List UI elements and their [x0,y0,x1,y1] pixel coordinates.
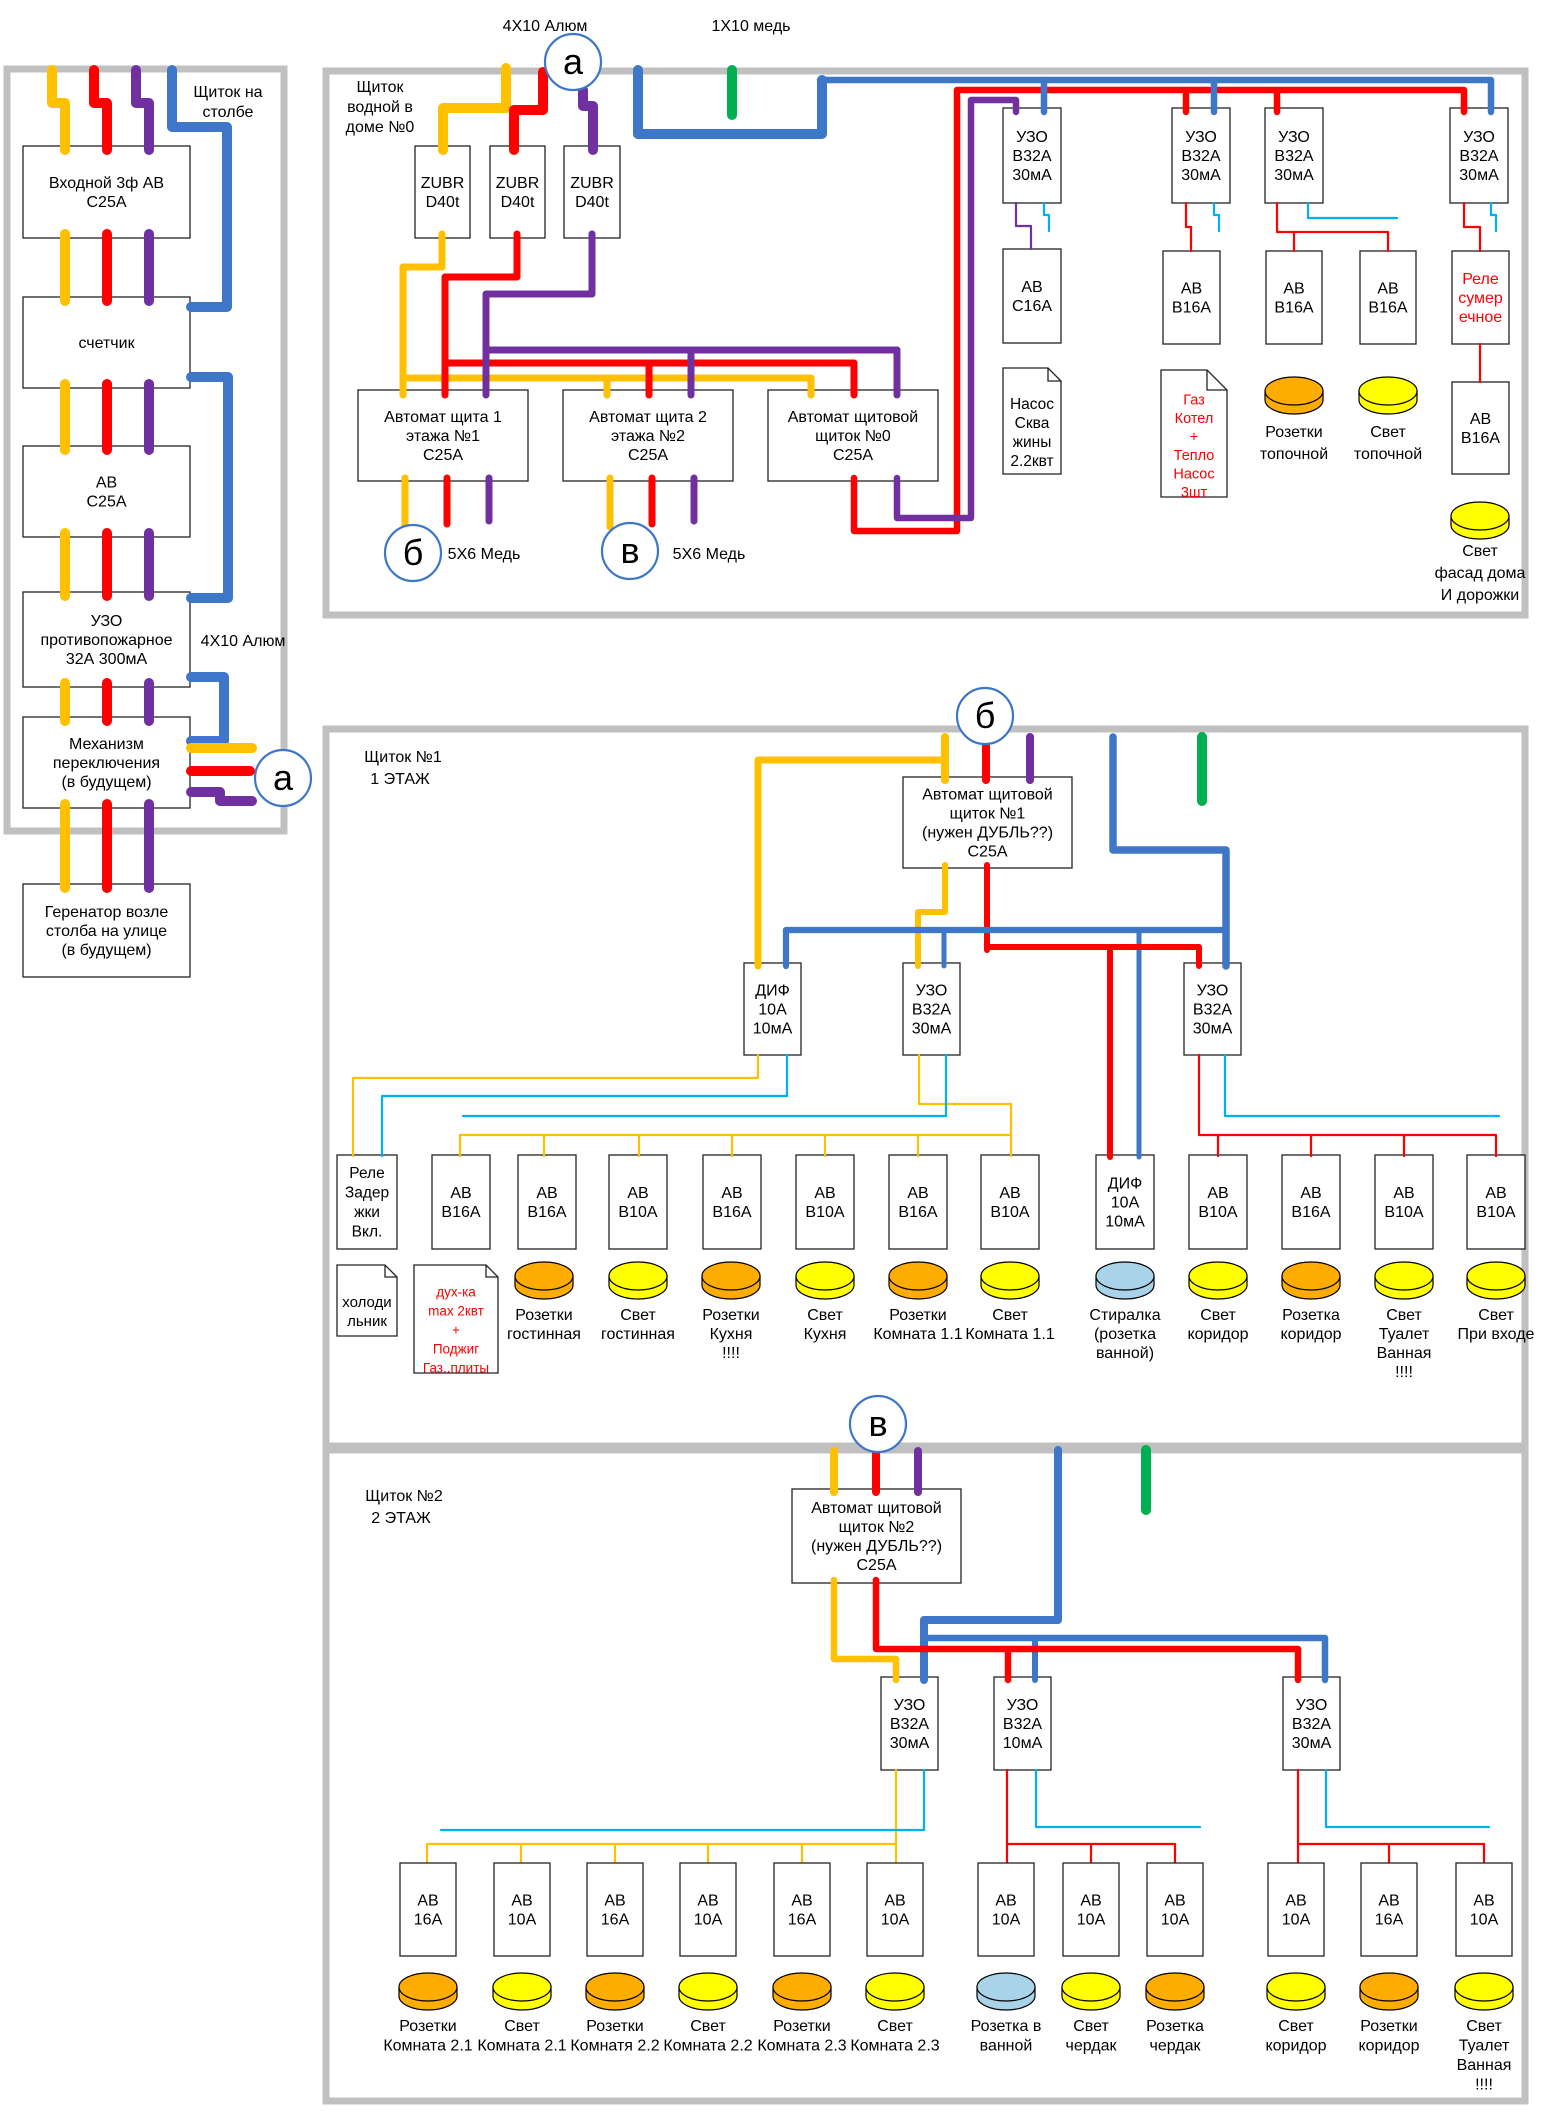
svg-text:АВ: АВ [1485,1185,1506,1202]
svg-text:столбе: столбе [203,104,254,121]
svg-text:АВ: АВ [907,1185,928,1202]
svg-text:+: + [1190,429,1198,445]
wire yellow bus p2 [427,1843,896,1845]
wire yellow ZUBR1 out [403,234,442,395]
breaker: АВ С16А [1003,249,1061,343]
wire L3 purple to generator [144,804,154,888]
wire red feed p1 [982,746,990,780]
wire blue N drop RCD1 [1041,80,1048,112]
svg-text:Ванная: Ванная [1457,2057,1512,2074]
svg-text:Свет: Свет [1200,1307,1236,1324]
wire purple riser A3 to RCD1 [897,100,1016,518]
svg-text:Тепло: Тепло [1174,448,1215,464]
wire L3 purple seg4 [144,683,154,721]
svg-text:max 2квт: max 2квт [428,1304,484,1319]
svg-text:Котел: Котел [1175,411,1214,427]
svg-text:(в будущем): (в будущем) [61,774,151,791]
wire red bus drop1 p1 [1217,1135,1219,1156]
wire blue N trunk thin [820,80,1491,112]
wire cyan N bus right p1 [1225,1055,1499,1116]
wire L1 yellow seg1 [60,234,70,301]
svg-text:Розетки: Розетки [515,1307,572,1324]
breaker: АВ В16А facade [1452,382,1509,474]
svg-text:водной в: водной в [347,99,413,116]
breaker: АВ 10А p2-9 [1147,1863,1203,1956]
svg-text:ZUBR: ZUBR [570,175,614,192]
wire red drop RCD2 [1183,90,1190,112]
svg-text:доме №0: доме №0 [346,119,415,136]
svg-text:Щиток: Щиток [357,79,405,96]
svg-text:УЗО: УЗО [1197,983,1229,1000]
wire purple drop A2 [688,350,695,395]
generator: Геренатор возле столба на улице (в будущем) [23,884,190,977]
wire blue N trunk p1 [1113,737,1226,966]
svg-text:АВ: АВ [96,475,117,492]
wire L3 purple seg1 [144,234,154,301]
wire N blue input [172,70,227,307]
svg-text:ДИФ: ДИФ [1108,1176,1143,1193]
svg-text:10А: 10А [1161,1912,1190,1929]
svg-text:Свет: Свет [1466,2018,1502,2035]
svg-text:ечное: ечное [1459,309,1502,326]
wire blue N drop RCD2 p2 [1032,1638,1038,1680]
svg-text:(нужен ДУБЛЬ??): (нужен ДУБЛЬ??) [922,825,1053,842]
wire red bus right p2 [1298,1843,1484,1845]
svg-text:Комната 2.2: Комната 2.2 [663,2038,752,2055]
svg-text:щиток №2: щиток №2 [839,1519,915,1536]
svg-text:а: а [273,757,294,798]
wire red bus [445,360,854,367]
svg-text:В32А: В32А [1274,148,1313,165]
svg-text:в: в [620,530,639,571]
svg-text:АВ: АВ [1300,1185,1321,1202]
svg-text:Розетки: Розетки [1265,424,1322,441]
wire purple feed ZUBR3 [583,90,593,150]
svg-text:коридор: коридор [1280,1326,1341,1343]
svg-text:Свет: Свет [620,1307,656,1324]
svg-text:Щиток №1: Щиток №1 [364,749,442,766]
RCD: УЗО В32А 30мА no0-2 [1172,108,1230,203]
svg-text:Ванная: Ванная [1377,1345,1432,1362]
svg-text:переключения: переключения [53,755,160,772]
wire L2 red seg2 [102,384,112,450]
svg-text:АВ: АВ [450,1185,471,1202]
breaker: АВ 16А p2-1 [400,1863,456,1956]
breaker: АВ 10А p2-2 [494,1863,550,1956]
svg-text:АВ: АВ [884,1893,905,1910]
svg-text:АВ: АВ [604,1893,625,1910]
svg-text:10А: 10А [1470,1912,1499,1929]
wire red A1 down [444,478,451,524]
svg-text:Стиралка: Стиралка [1089,1307,1160,1324]
RCD: ДИФ 10А 10мА washer [1096,1155,1154,1249]
svg-text:Туалет: Туалет [1459,2038,1510,2055]
svg-text:Комната 2.3: Комната 2.3 [850,2038,939,2055]
svg-text:ванной): ванной) [1096,1345,1154,1362]
wire red drop A3 [851,363,858,395]
svg-text:10А: 10А [1111,1195,1140,1212]
wire L1 yellow to generator [60,804,70,888]
svg-text:10А: 10А [508,1912,537,1929]
svg-text:В16А: В16А [441,1204,480,1221]
svg-text:АВ: АВ [697,1893,718,1910]
breaker: АВ В10А p1-5 [796,1155,854,1249]
svg-text:В32А: В32А [890,1716,929,1733]
wire red RCD3 tree [1277,203,1388,251]
breaker: АВ В16А p1-2 [518,1155,576,1249]
wire yellow drop5 p2 [801,1844,803,1864]
wire red drop r2 p2 [1483,1844,1485,1864]
breaker: АВ В10А p1-3 [609,1155,667,1249]
svg-text:Розетка: Розетка [1146,2018,1204,2035]
svg-text:ZUBR: ZUBR [421,175,465,192]
svg-text:АВ: АВ [1473,1893,1494,1910]
svg-text:УЗО: УЗО [1016,129,1048,146]
wire purple A1 down [486,478,493,521]
wire L1 yellow seg4 [60,683,70,721]
svg-text:(нужен ДУБЛЬ??): (нужен ДУБЛЬ??) [811,1538,942,1555]
svg-text:В10А: В10А [618,1204,657,1221]
node a left [255,750,311,806]
svg-text:При входе: При входе [1458,1326,1535,1343]
svg-text:В10А: В10А [1476,1204,1515,1221]
svg-text:Механизм: Механизм [69,736,144,753]
svg-text:Комната 1.1: Комната 1.1 [873,1326,962,1343]
svg-text:Реле: Реле [349,1165,384,1182]
svg-text:жины: жины [1013,434,1052,451]
svg-text:В16А: В16А [1274,300,1313,317]
breaker: АВ В10А p1-10 [1375,1155,1433,1249]
svg-text:30мА: 30мА [890,1735,930,1752]
svg-text:АВ: АВ [791,1893,812,1910]
wire cyan N RCD1 p2 [441,1770,924,1830]
wire yellow drop1 p2 [426,1844,428,1864]
svg-text:коридор: коридор [1358,2038,1419,2055]
svg-text:АВ: АВ [999,1185,1020,1202]
svg-text:(в будущем): (в будущем) [61,942,151,959]
load disc p1-7: Стиралка (розетка [1096,1276,1154,1299]
wire L2 red seg4 [102,683,112,721]
wire red drop RCD2 p2 [1005,1649,1012,1680]
svg-text:Щиток на: Щиток на [193,84,262,101]
svg-text:АВ: АВ [417,1893,438,1910]
svg-text:3шт: 3шт [1181,485,1208,501]
svg-text:коридор: коридор [1265,2038,1326,2055]
breaker: АВ В16А p1-4 [703,1155,761,1249]
wire N blue RCD to switch [191,677,224,741]
svg-text:АВ: АВ [721,1185,742,1202]
wire L1 yellow out to a [191,743,252,753]
svg-text:16А: 16А [788,1912,817,1929]
svg-text:D40t: D40t [426,194,460,211]
svg-text:Автомат щитовой: Автомат щитовой [811,1500,942,1517]
svg-text:Автомат щита 1: Автомат щита 1 [384,409,502,426]
switch: Механизм переключения (в будущем) [23,717,190,808]
svg-text:дух-ка: дух-ка [436,1285,476,1300]
svg-text:УЗО: УЗО [1185,129,1217,146]
svg-text:АВ: АВ [1164,1893,1185,1910]
wire purple bus [486,347,897,354]
wire red bus mid p2 [1007,1843,1175,1845]
wire cyan DIF1 to relay [382,1055,787,1156]
relay ZUBR D40t 2 [490,146,545,238]
svg-text:5X6 Медь: 5X6 Медь [448,546,521,563]
wire cyan N RCD2 p2 [1036,1770,1200,1827]
wire yellow RCD1 down p2 [895,1770,897,1864]
wire yellow bus drop3 [638,1135,640,1156]
svg-text:АВ: АВ [511,1893,532,1910]
breaker: АВ В10А p1-8 [1189,1155,1247,1249]
node b p1 [957,688,1013,744]
wire yellow RCD1 feed bus p1 [919,1055,1011,1156]
breaker: Входной 3ф АВ С25А [23,146,190,238]
wire blue N trunk p2 [924,1450,1058,1680]
load disc p2-7: Розетка в ванной [977,1987,1035,2010]
svg-text:32А 300мА: 32А 300мА [66,651,148,668]
svg-text:Реле: Реле [1462,271,1499,288]
wire yellow A2 down [607,478,614,527]
svg-text:счетчик: счетчик [78,335,135,352]
wire yellow bus drop6 [917,1135,919,1156]
breaker: АВ 16А p2-11 [1361,1863,1417,1956]
svg-text:УЗО: УЗО [91,613,123,630]
svg-text:В16А: В16А [712,1204,751,1221]
svg-text:30мА: 30мА [1193,1021,1233,1038]
wire yellow bus drop4 [731,1135,733,1156]
svg-text:УЗО: УЗО [1463,129,1495,146]
load disc p1-2: Свет гостинная [609,1276,667,1299]
svg-text:АВ: АВ [536,1185,557,1202]
relay ZUBR D40t 1 [415,146,470,238]
svg-text:+: + [452,1323,460,1338]
svg-text:Газ..плиты: Газ..плиты [423,1361,489,1376]
RCD: ДИФ 10А 10мА p1 [744,963,801,1055]
wire cyan N RCD3 [1308,203,1397,218]
svg-text:Поджиг: Поджиг [433,1342,479,1357]
svg-text:С25А: С25А [86,194,126,211]
load disc p2-2: Свет Комната 2.1 [493,1987,551,2010]
svg-text:Розетки: Розетки [586,2018,643,2035]
svg-text:В16А: В16А [1461,430,1500,447]
svg-text:сумер: сумер [1458,290,1503,307]
svg-text:С25А: С25А [423,447,463,464]
svg-text:D40t: D40t [501,194,535,211]
svg-text:Вкл.: Вкл. [352,1224,383,1241]
svg-text:В32А: В32А [1459,148,1498,165]
svg-text:УЗО: УЗО [1296,1697,1328,1714]
wire red bus drop2 p1 [1310,1135,1312,1156]
wire green PE stub p2 [1141,1450,1151,1510]
wire red A down p1 [984,865,990,950]
wire green PE stub [727,70,737,115]
svg-text:D40t: D40t [575,194,609,211]
wire yellow bus drop5 [824,1135,826,1156]
panel border: Щиток на столбе [7,69,284,831]
RCD: УЗО В32А 30мА p1-2 [1184,963,1241,1055]
wire blue N drop RCD1 p1 [942,930,947,966]
svg-text:Розетки: Розетки [399,2018,456,2035]
svg-text:В32А: В32А [912,1002,951,1019]
svg-text:УЗО: УЗО [1278,129,1310,146]
svg-text:Автомат щита 2: Автомат щита 2 [589,409,707,426]
svg-text:30мА: 30мА [1459,167,1499,184]
breaker: АВ 10А p2-6 [867,1863,923,1956]
svg-text:1X10 медь: 1X10 медь [711,18,790,35]
wire yellow drop2 p2 [520,1844,522,1864]
wire red relay to AB [1479,344,1481,382]
svg-text:16А: 16А [601,1912,630,1929]
svg-text:Комната 1.1: Комната 1.1 [965,1326,1054,1343]
svg-text:Свет: Свет [1462,543,1498,560]
node v top [602,523,658,579]
wire yellow feed p2 [830,1451,838,1492]
svg-text:В16А: В16А [527,1204,566,1221]
svg-text:Розетки: Розетки [773,2018,830,2035]
svg-text:С25А: С25А [86,494,126,511]
svg-text:АВ: АВ [1378,1893,1399,1910]
svg-text:ванной: ванной [980,2038,1033,2055]
breaker: АВ В16А pump panel [1163,251,1220,344]
wire blue N trunk top [638,70,822,134]
wire red drop m2 p2 [1174,1844,1176,1864]
svg-text:б: б [975,695,996,736]
RCD: УЗО В32А 30мА p2-3 [1283,1677,1340,1770]
load disc p1-4: Свет Кухня [796,1276,854,1299]
svg-text:Розетка: Розетка [1282,1307,1340,1324]
panel border: Щиток №2 2 ЭТАЖ [326,1450,1525,2101]
svg-text:Комнатя 2.2: Комнатя 2.2 [570,2038,659,2055]
wire blue N drop RCD2 [1211,80,1218,112]
svg-text:Входной 3ф АВ: Входной 3ф АВ [49,175,164,192]
wire red RCD2 bus p1 [1199,1055,1496,1156]
svg-text:!!!!: !!!! [1395,1364,1413,1381]
wire yellow DIF1 to relay [353,1055,758,1156]
wire cyan N stub RCD2 [1214,203,1219,231]
load disc p2-8: Свет чердак [1062,1987,1120,2010]
RCD: УЗО В32А 30мА p2-1 [881,1677,938,1770]
svg-text:И дорожки: И дорожки [1441,587,1519,604]
wire L2 red to generator [102,804,112,888]
RCD: УЗО В32А 30мА p1-1 [903,963,960,1055]
wire L1 yellow input [52,70,65,150]
relay ZUBR D40t 3 [564,146,620,238]
wire red RCD3 drop [1293,232,1295,251]
svg-text:В10А: В10А [805,1204,844,1221]
svg-text:АВ: АВ [1470,411,1491,428]
wire L1 yellow seg2 [60,384,70,450]
load doc: дух-ка max 2квт [414,1265,498,1373]
svg-text:Свет: Свет [1073,2018,1109,2035]
svg-text:Свет: Свет [877,2018,913,2035]
svg-text:10А: 10А [758,1002,787,1019]
RCD: УЗО противопожарное 32А 300мА [23,592,190,687]
wire purple stub p1 [1026,737,1034,780]
svg-text:УЗО: УЗО [916,983,948,1000]
wire red feed p2 [872,1453,880,1492]
svg-text:В32А: В32А [1012,148,1051,165]
svg-text:В16А: В16А [1172,300,1211,317]
wire yellow feed ZUBR1 [443,68,506,150]
wire blue N drop DIF2 p1 [1137,930,1142,1157]
svg-text:Свет: Свет [807,1307,843,1324]
breaker: АВ 10А p2-4 [680,1863,736,1956]
breaker: АВ В16А p1-1 [432,1155,490,1249]
wire red feed ZUBR2 [514,72,543,150]
svg-text:!!!!: !!!! [1475,2077,1493,2094]
svg-text:С25А: С25А [628,447,668,464]
svg-text:этажа №2: этажа №2 [611,428,685,445]
svg-text:30мА: 30мА [1012,167,1052,184]
svg-text:топочной: топочной [1354,446,1422,463]
svg-text:чердак: чердак [1066,2038,1118,2055]
svg-text:Розетки: Розетки [702,1307,759,1324]
svg-text:В32А: В32А [1193,1002,1232,1019]
breaker: АВ В16А sockets boiler [1266,251,1322,344]
load disc p2-9: Розетка чердак [1146,1987,1204,2010]
svg-text:АВ: АВ [1181,281,1202,298]
breaker: АВ В10А p1-7 [981,1155,1039,1249]
breaker: АВ 10А p2-12 [1456,1863,1512,1956]
svg-text:Автомат щитовой: Автомат щитовой [922,787,1053,804]
svg-text:10А: 10А [992,1912,1021,1929]
svg-text:а: а [563,41,584,82]
svg-text:Кухня: Кухня [804,1326,847,1343]
svg-text:Насос: Насос [1173,466,1214,482]
wire blue N horizontal p1 [786,930,1223,966]
load disc p2-11: Розетки коридор [1360,1987,1418,2010]
wire red A bus p2 [876,1580,1298,1680]
breaker: АВ 10А p2-7 [978,1863,1034,1956]
svg-text:УЗО: УЗО [894,1697,926,1714]
load disc: Розетки топочной [1265,391,1323,414]
load disc p2-3: Розетки Комнатя 2.2 [586,1987,644,2010]
svg-text:холоди: холоди [342,1294,391,1311]
svg-text:Насос: Насос [1010,396,1054,413]
wire yellow drop A3 [808,378,815,395]
load disc p1-3: Розетки Кухня [702,1276,760,1299]
wire red drop RCD3 [1274,90,1281,112]
wire red RCD2 down p2 [1006,1770,1008,1864]
svg-text:10мА: 10мА [1003,1735,1043,1752]
svg-text:10мА: 10мА [1105,1214,1145,1231]
wire blue N branch p2 [925,1638,1325,1680]
svg-text:30мА: 30мА [1292,1735,1332,1752]
svg-text:этажа №1: этажа №1 [406,428,480,445]
load disc p2-6: Свет Комната 2.3 [866,1987,924,2010]
svg-text:Свет: Свет [1386,1307,1422,1324]
wire cyan N stub RCD1 [1044,203,1049,231]
svg-text:чердак: чердак [1150,2038,1202,2055]
svg-text:2.2квт: 2.2квт [1010,453,1053,470]
svg-text:Розетки: Розетки [889,1307,946,1324]
wire L2 red seg1 [102,234,112,301]
breaker: АВ В10А p1-11 [1467,1155,1525,1249]
svg-text:5X6 Медь: 5X6 Медь [673,546,746,563]
wire red RCD3 down p2 [1297,1770,1299,1864]
wire yellow branch to DIF1 [758,760,944,966]
svg-text:В32А: В32А [1292,1716,1331,1733]
breaker: АВ 10А p2-8 [1063,1863,1119,1956]
load doc: Газ Котел + Тепло Насос 3шт [1161,370,1227,497]
svg-text:С25А: С25А [967,844,1007,861]
svg-text:Свет: Свет [1370,424,1406,441]
wire purple A2 down [691,478,698,521]
svg-text:С25А: С25А [856,1557,896,1574]
svg-text:столба на улице: столба на улице [46,923,167,940]
wire L1 yellow seg3 [60,533,70,596]
svg-text:АВ: АВ [1377,281,1398,298]
wire purple drop A3 [894,350,901,395]
